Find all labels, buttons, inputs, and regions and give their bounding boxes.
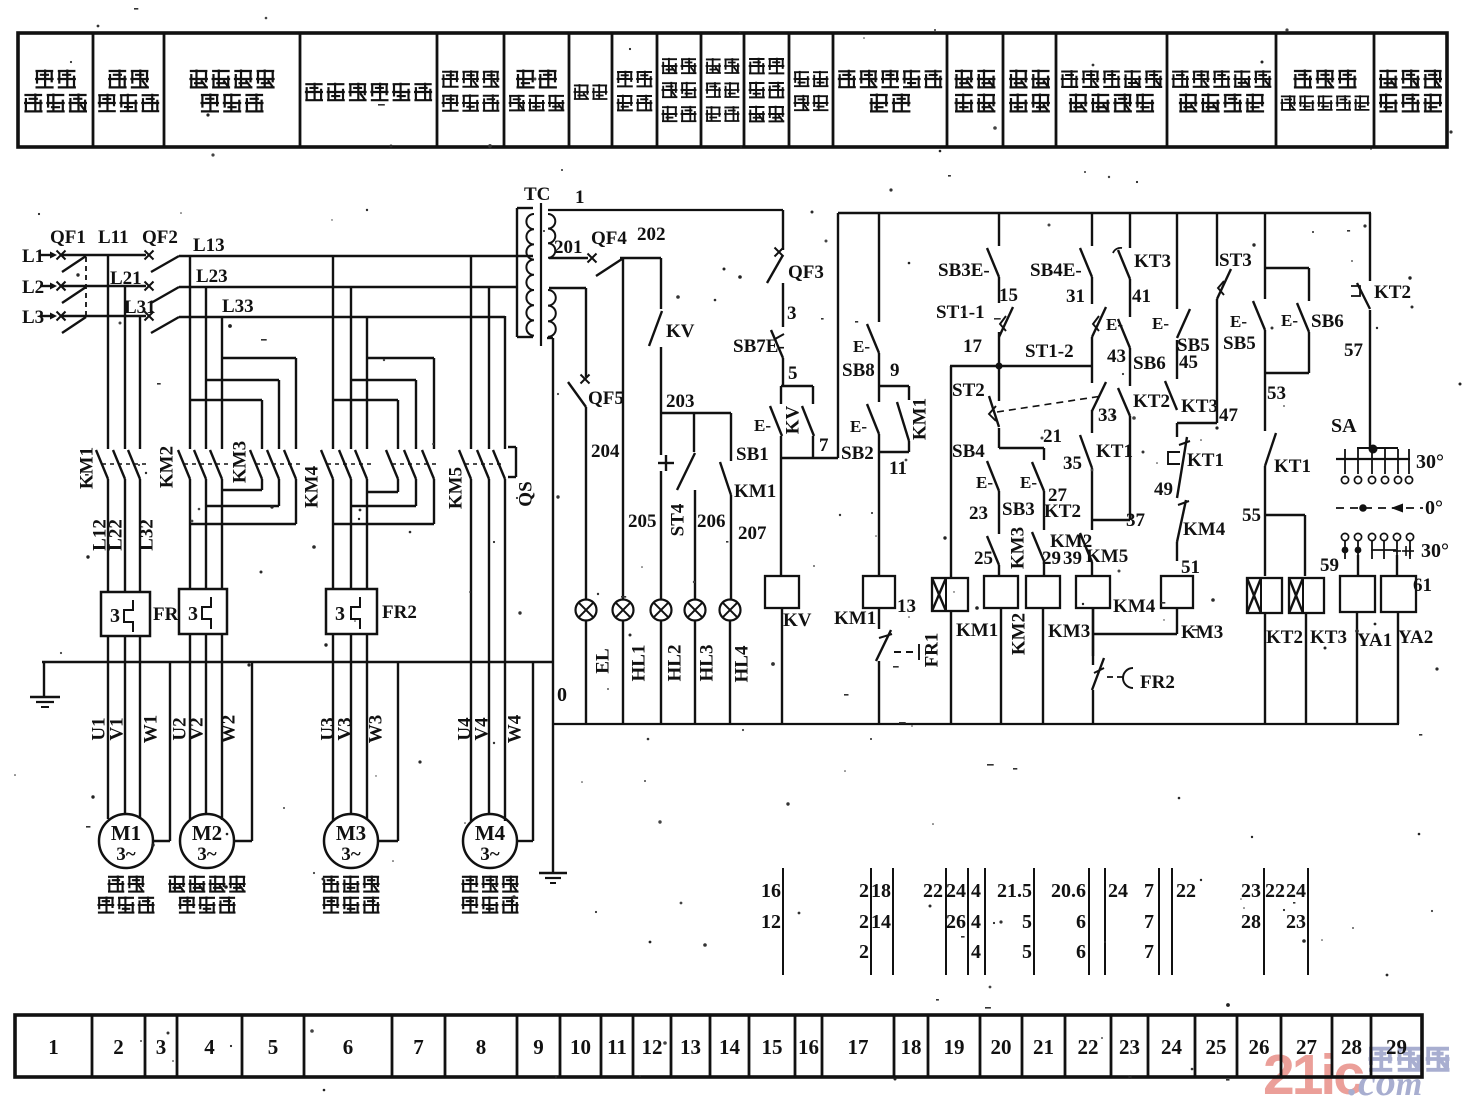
svg-text:2: 2 [859, 941, 869, 963]
svg-text:SB4: SB4 [952, 441, 985, 462]
svg-text:E-: E- [754, 416, 771, 435]
svg-text:11: 11 [889, 458, 907, 479]
svg-text:QF1: QF1 [50, 227, 86, 248]
wire 0 vertical [547, 338, 567, 873]
wire M1 phases to FR [108, 479, 140, 592]
svg-text:22: 22 [1176, 880, 1196, 902]
wire FRbox to M2 [190, 634, 222, 820]
svg-text:17: 17 [848, 1035, 869, 1059]
svg-text:7: 7 [413, 1035, 424, 1059]
svg-text:KM4: KM4 [1113, 596, 1156, 617]
svg-text:M2: M2 [192, 821, 222, 845]
thermal relay FR2 (M3) [326, 589, 417, 634]
svg-text:59: 59 [1320, 555, 1339, 576]
svg-text:24: 24 [1161, 1035, 1183, 1059]
pushbutton SB5 (col H) [1223, 268, 1265, 373]
svg-text:28: 28 [1341, 1035, 1362, 1059]
svg-text:W1: W1 [140, 715, 161, 744]
wire 47 junction [1177, 422, 1217, 424]
svg-text:L2: L2 [22, 277, 44, 298]
svg-text:E-: E- [1152, 314, 1169, 333]
svg-text:SB6: SB6 [1311, 311, 1344, 332]
motor M4 [463, 814, 517, 868]
limit switch ST4 [658, 413, 695, 600]
svg-text:201: 201 [554, 237, 583, 258]
contact KV selfhold [782, 386, 814, 458]
svg-text:26: 26 [946, 911, 966, 933]
svg-text:4: 4 [204, 1035, 215, 1059]
contactor KM4 main contacts [301, 450, 371, 508]
svg-text:8: 8 [476, 1035, 487, 1059]
wire KM5 feeds [471, 255, 505, 449]
svg-text:KT3: KT3 [1181, 396, 1218, 417]
U3 V3 W3 labels [317, 715, 386, 744]
svg-text:ST2: ST2 [952, 380, 985, 401]
svg-text:V3: V3 [334, 717, 355, 740]
svg-text:20: 20 [991, 1035, 1012, 1059]
svg-text:KM1: KM1 [909, 398, 930, 440]
svg-text:QF5: QF5 [588, 388, 624, 409]
wire 59 [1320, 555, 1358, 576]
wire 205 label [628, 511, 657, 532]
svg-text:SB8: SB8 [842, 360, 875, 381]
svg-text:3: 3 [110, 605, 120, 627]
contact usage table [761, 868, 1308, 975]
transformer TC [517, 184, 556, 346]
U2 V2 W2 labels [169, 715, 239, 744]
svg-text:23: 23 [1119, 1035, 1140, 1059]
contact KM1 selfhold [897, 386, 930, 452]
svg-text:204: 204 [591, 441, 620, 462]
svg-text:M4: M4 [475, 821, 506, 845]
header table frame [18, 33, 1447, 147]
svg-text:4: 4 [971, 911, 981, 933]
svg-text:L13: L13 [193, 235, 225, 256]
wire KM2 feeds [190, 255, 222, 449]
svg-text:SB3E-: SB3E- [938, 260, 990, 281]
svg-text:57: 57 [1344, 340, 1364, 361]
svg-text:KT3: KT3 [1134, 251, 1171, 272]
svg-text:L33: L33 [222, 296, 254, 317]
motor M1 [99, 814, 153, 868]
svg-text:35: 35 [1063, 453, 1082, 474]
svg-text:24: 24 [1286, 880, 1306, 902]
svg-text:4: 4 [971, 941, 981, 963]
svg-text:KM1: KM1 [734, 481, 776, 502]
lamp HL4 [720, 600, 741, 621]
solenoid YA2 [1381, 576, 1433, 724]
svg-text:1: 1 [575, 187, 585, 208]
parallel branch SB2/KM1 [879, 385, 909, 387]
wire FR2 to M3 [333, 634, 367, 820]
svg-text:7: 7 [1144, 880, 1154, 902]
lamp return wires [586, 620, 730, 724]
wire 3 [783, 283, 797, 327]
svg-text:KM5: KM5 [445, 467, 466, 509]
contactor coil KM2 [984, 576, 1029, 724]
M1 frame ground [153, 662, 170, 841]
header table labels [24, 58, 1442, 122]
svg-text:W4: W4 [504, 714, 525, 743]
svg-text:KT3: KT3 [1310, 627, 1347, 648]
motor M3 [324, 814, 378, 868]
contactor KM5 main contacts [445, 450, 505, 509]
svg-text:3~: 3~ [480, 844, 500, 865]
svg-text:4: 4 [971, 880, 981, 902]
wire 204 label [591, 441, 620, 462]
svg-text:22: 22 [1265, 880, 1285, 902]
pushbutton SB4 lower [952, 441, 1035, 534]
svg-text:14: 14 [871, 911, 891, 933]
svg-text:20.6: 20.6 [1051, 880, 1086, 902]
wire ST1-1 to bus17 [998, 332, 1000, 366]
svg-text:7: 7 [819, 435, 829, 456]
time contact KT1 delay (col F) [1154, 423, 1224, 500]
contact KT1 (col D) [1063, 410, 1133, 530]
breaker QF3 [767, 210, 824, 283]
svg-text:23: 23 [1241, 880, 1261, 902]
motor M2 [180, 814, 234, 868]
wire M4 phases [471, 479, 505, 821]
svg-text:FR2: FR2 [1140, 672, 1175, 693]
wire L21 [110, 268, 142, 449]
svg-text:31: 31 [1066, 286, 1085, 307]
U4 V4 W4 labels [454, 714, 525, 743]
svg-text:51: 51 [1181, 557, 1200, 578]
parallel branch SB5/SB6 [1265, 213, 1309, 268]
svg-text:207: 207 [738, 523, 767, 544]
svg-text:29: 29 [1386, 1035, 1407, 1059]
svg-text:19: 19 [944, 1035, 965, 1059]
svg-text:HL2: HL2 [664, 645, 685, 682]
svg-text:18: 18 [901, 1035, 922, 1059]
svg-text:24: 24 [1108, 880, 1128, 902]
disconnect QS [508, 447, 536, 507]
svg-text:V1: V1 [106, 717, 127, 740]
svg-text:3~: 3~ [197, 844, 217, 865]
svg-text:12: 12 [642, 1035, 663, 1059]
contact ST2 linked [1092, 382, 1117, 426]
svg-text:W3: W3 [365, 715, 386, 744]
wire 55 [1242, 505, 1305, 526]
breaker QF4 [588, 228, 662, 276]
svg-text:QF2: QF2 [142, 227, 178, 248]
pushbutton SB6 upper [1106, 279, 1166, 374]
svg-text:SB4E-: SB4E- [1030, 260, 1082, 281]
svg-text:206: 206 [697, 511, 726, 532]
M3 frame ground [378, 662, 398, 841]
svg-text:M3: M3 [336, 821, 366, 845]
U1 V1 W1 labels [88, 715, 161, 744]
svg-text:6: 6 [343, 1035, 354, 1059]
contactor KM2 main contacts [156, 446, 228, 488]
svg-text:KM3: KM3 [1048, 621, 1090, 642]
svg-text:KV: KV [783, 610, 812, 631]
svg-text:L21: L21 [110, 268, 142, 289]
bottom zone-number table [15, 1015, 1422, 1077]
limit switch ST1-2 [1025, 277, 1106, 362]
node L2 [22, 277, 57, 298]
svg-text:FR1: FR1 [921, 633, 942, 668]
svg-text:KT2: KT2 [1044, 501, 1081, 522]
svg-text:3: 3 [335, 603, 345, 625]
thermal relay box (M2) [179, 589, 227, 634]
wire 37 [1092, 416, 1146, 531]
circuit breaker QF1 [50, 227, 86, 333]
svg-text:13: 13 [680, 1035, 701, 1059]
contactor coil KM3 [1026, 576, 1090, 724]
contact KT1 (col H) [1265, 373, 1311, 515]
pushbutton SB5 (col F) [1152, 213, 1210, 373]
wire L12 L22 L32 labels [89, 519, 157, 551]
breaker QF5 [549, 288, 624, 600]
svg-text:E-: E- [853, 337, 870, 356]
pushbutton SB2 [841, 386, 879, 464]
svg-text:HL3: HL3 [696, 645, 717, 682]
svg-text:SB3: SB3 [1002, 499, 1035, 520]
wire M3 phases [333, 479, 367, 589]
M4 frame ground [517, 662, 533, 841]
pushbutton SB8 [842, 213, 879, 386]
svg-text:3: 3 [787, 303, 797, 324]
time contact KT3 (col E) [1113, 213, 1171, 307]
pushbutton SB1 (start KV) [736, 386, 782, 465]
contact KT2 (col E) [1118, 348, 1170, 416]
svg-text:27: 27 [1296, 1035, 1317, 1059]
wire KM3 crossover feeds [190, 358, 296, 449]
svg-text:KT2: KT2 [1374, 282, 1411, 303]
svg-text:SB1: SB1 [736, 444, 769, 465]
motor M1 label [98, 876, 155, 914]
svg-text:KT1: KT1 [1274, 456, 1311, 477]
wire 202 [623, 224, 666, 600]
svg-text:QS: QS [515, 481, 536, 506]
control return bus 0 [553, 723, 1399, 725]
svg-text:KM3: KM3 [1007, 527, 1028, 569]
wire FR to M1 [108, 636, 140, 819]
wire 201 [549, 237, 588, 258]
relay contact KV (indicator feed) [649, 258, 695, 413]
selector switch SA [1331, 310, 1449, 562]
contactor KM1 main contacts [76, 447, 146, 489]
bus 17 [950, 336, 1092, 370]
svg-text:202: 202 [637, 224, 666, 245]
ground symbol TC [539, 873, 567, 883]
pushbutton SB7 [733, 330, 785, 386]
svg-text:43: 43 [1107, 346, 1126, 367]
svg-text:30°: 30° [1416, 451, 1444, 473]
relay coil KV [765, 576, 812, 724]
svg-text:KT1: KT1 [1096, 441, 1133, 462]
svg-text:KM3: KM3 [1181, 622, 1223, 643]
wire 5 [788, 363, 798, 384]
svg-text:14: 14 [719, 1035, 741, 1059]
motor M4 label [462, 876, 519, 914]
wire 61 [1397, 555, 1432, 596]
svg-text:203: 203 [666, 391, 695, 412]
svg-text:39: 39 [1063, 548, 1082, 569]
svg-text:L23: L23 [196, 266, 228, 287]
wire 9 [890, 360, 900, 381]
svg-text:41: 41 [1132, 286, 1151, 307]
svg-text:9: 9 [890, 360, 900, 381]
svg-text:M1: M1 [111, 821, 141, 845]
wire KM4 crossover feeds [333, 358, 434, 449]
svg-text:E-: E- [976, 473, 993, 492]
wire L13 [179, 235, 533, 256]
wire L23 [179, 266, 517, 287]
svg-text:13: 13 [897, 596, 916, 617]
PE bus [42, 661, 553, 664]
wire 1 top secondary [548, 187, 783, 210]
svg-text:6: 6 [1076, 941, 1086, 963]
thermal contact FR2 [1092, 608, 1175, 724]
wire to KV coil [780, 458, 782, 576]
wire ST1-2 down [1091, 337, 1093, 383]
svg-text:FR: FR [153, 604, 179, 625]
svg-text:TC: TC [524, 184, 550, 205]
svg-text:E-: E- [1020, 473, 1037, 492]
contactor coil KM1 [834, 576, 916, 629]
svg-text:0°: 0° [1425, 497, 1443, 519]
wire to KT2 KT3 coils [1265, 515, 1305, 576]
svg-text:KV: KV [782, 405, 803, 434]
time relay coil KT3 [1289, 578, 1347, 724]
wire KM4 merge [333, 479, 434, 524]
svg-text:SB5: SB5 [1223, 333, 1256, 354]
svg-text:21: 21 [1043, 426, 1062, 447]
limit switch ST2 [952, 366, 1102, 427]
wire to KM1 coil [878, 452, 880, 576]
svg-text:12: 12 [761, 911, 781, 933]
wire 53 [1265, 373, 1309, 404]
svg-text:0: 0 [557, 684, 567, 706]
wire KM4 feeds [333, 255, 367, 449]
svg-text:KM4: KM4 [1183, 519, 1226, 540]
svg-text:E-: E- [850, 417, 867, 436]
svg-text:3: 3 [156, 1035, 167, 1059]
svg-text:L1: L1 [22, 246, 44, 267]
svg-text:10: 10 [570, 1035, 591, 1059]
svg-text:7: 7 [1144, 911, 1154, 933]
wire L11 [98, 227, 129, 449]
svg-text:YA1: YA1 [1357, 630, 1392, 651]
control rail 7 [838, 213, 1371, 458]
contact KT2 (arm col) [1020, 448, 1081, 530]
lamp HL3 [685, 600, 706, 621]
svg-text:21: 21 [1033, 1035, 1054, 1059]
contact KM5 interlock [1063, 533, 1128, 576]
svg-text:3~: 3~ [341, 844, 361, 865]
svg-text:26: 26 [1249, 1035, 1270, 1059]
ground symbol left [30, 662, 60, 707]
svg-text:FR2: FR2 [382, 602, 417, 623]
svg-text:E-: E- [1230, 312, 1247, 331]
21ic.com watermark [1263, 1043, 1450, 1096]
svg-text:16: 16 [798, 1035, 819, 1059]
svg-text:37: 37 [1126, 510, 1146, 531]
svg-text:L32: L32 [136, 519, 157, 551]
svg-text:5: 5 [1022, 941, 1032, 963]
svg-text:QF3: QF3 [788, 262, 824, 283]
svg-text:15: 15 [999, 285, 1018, 306]
svg-text:25: 25 [974, 548, 993, 569]
svg-text:KM4: KM4 [301, 465, 322, 508]
svg-text:49: 49 [1154, 479, 1173, 500]
svg-text:45: 45 [1179, 352, 1198, 373]
svg-text:25: 25 [1206, 1035, 1227, 1059]
motor M2 label [168, 876, 245, 914]
svg-text:L11: L11 [98, 227, 129, 248]
solenoid YA1 [1340, 576, 1392, 724]
wire 203 [661, 391, 731, 413]
contact KM2 interlock [1032, 531, 1092, 576]
thermal relay FR (M1) [101, 592, 179, 636]
svg-text:3~: 3~ [116, 844, 136, 865]
svg-text:205: 205 [628, 511, 657, 532]
lamp HL2 [651, 600, 672, 621]
svg-text:V4: V4 [471, 717, 492, 741]
contactor second group contacts (M3 reverse) [386, 450, 438, 479]
svg-text:EL: EL [592, 648, 613, 673]
svg-text:22: 22 [923, 880, 943, 902]
svg-text:30°: 30° [1421, 540, 1449, 562]
wire 11 [879, 452, 909, 479]
svg-text:15: 15 [762, 1035, 783, 1059]
svg-text:6: 6 [1076, 911, 1086, 933]
svg-text:23: 23 [1286, 911, 1306, 933]
contact KT3 (col F) [1165, 340, 1239, 426]
svg-text:KV: KV [666, 321, 695, 342]
pushbutton SB6 (col H) [1281, 268, 1344, 373]
svg-text:KM2: KM2 [156, 446, 177, 488]
svg-text:SA: SA [1331, 415, 1357, 437]
svg-text:53: 53 [1267, 383, 1286, 404]
svg-text:SB2: SB2 [841, 443, 874, 464]
svg-text:V2: V2 [186, 717, 207, 740]
svg-text:KT1: KT1 [1187, 450, 1224, 471]
thermal contact FR1 [876, 630, 942, 724]
svg-text:HL4: HL4 [731, 645, 752, 682]
wire L2 QF1-QF2 [62, 285, 146, 287]
wire 206 label [697, 511, 726, 532]
svg-text:5: 5 [268, 1035, 279, 1059]
wire L1 QF1-QF2 [62, 254, 146, 256]
circuit breaker QF2 [142, 227, 179, 333]
svg-text:ST1-1: ST1-1 [936, 302, 985, 323]
svg-text:21.5: 21.5 [997, 880, 1032, 902]
svg-text:L22: L22 [105, 519, 126, 551]
svg-text:18: 18 [871, 880, 891, 902]
svg-text:SB6: SB6 [1133, 353, 1166, 374]
wire L33 [179, 296, 505, 317]
undervoltage coil (KM1) [932, 366, 998, 724]
svg-text:55: 55 [1242, 505, 1261, 526]
svg-text:L3: L3 [22, 307, 44, 328]
wire L3 QF1-QF2 [62, 315, 146, 317]
wire 21 branch [999, 426, 1062, 448]
svg-text:ST3: ST3 [1219, 250, 1252, 271]
svg-text:ST1-2: ST1-2 [1025, 341, 1074, 362]
svg-text:3: 3 [188, 603, 198, 625]
time relay coil KT2 [1247, 578, 1303, 724]
contactor coil KM5 [1094, 576, 1223, 643]
svg-text:QF4: QF4 [591, 228, 627, 249]
svg-text:YA2: YA2 [1398, 627, 1433, 648]
svg-text:HL1: HL1 [628, 645, 649, 682]
svg-text:22: 22 [1078, 1035, 1099, 1059]
svg-text:17: 17 [963, 336, 983, 357]
